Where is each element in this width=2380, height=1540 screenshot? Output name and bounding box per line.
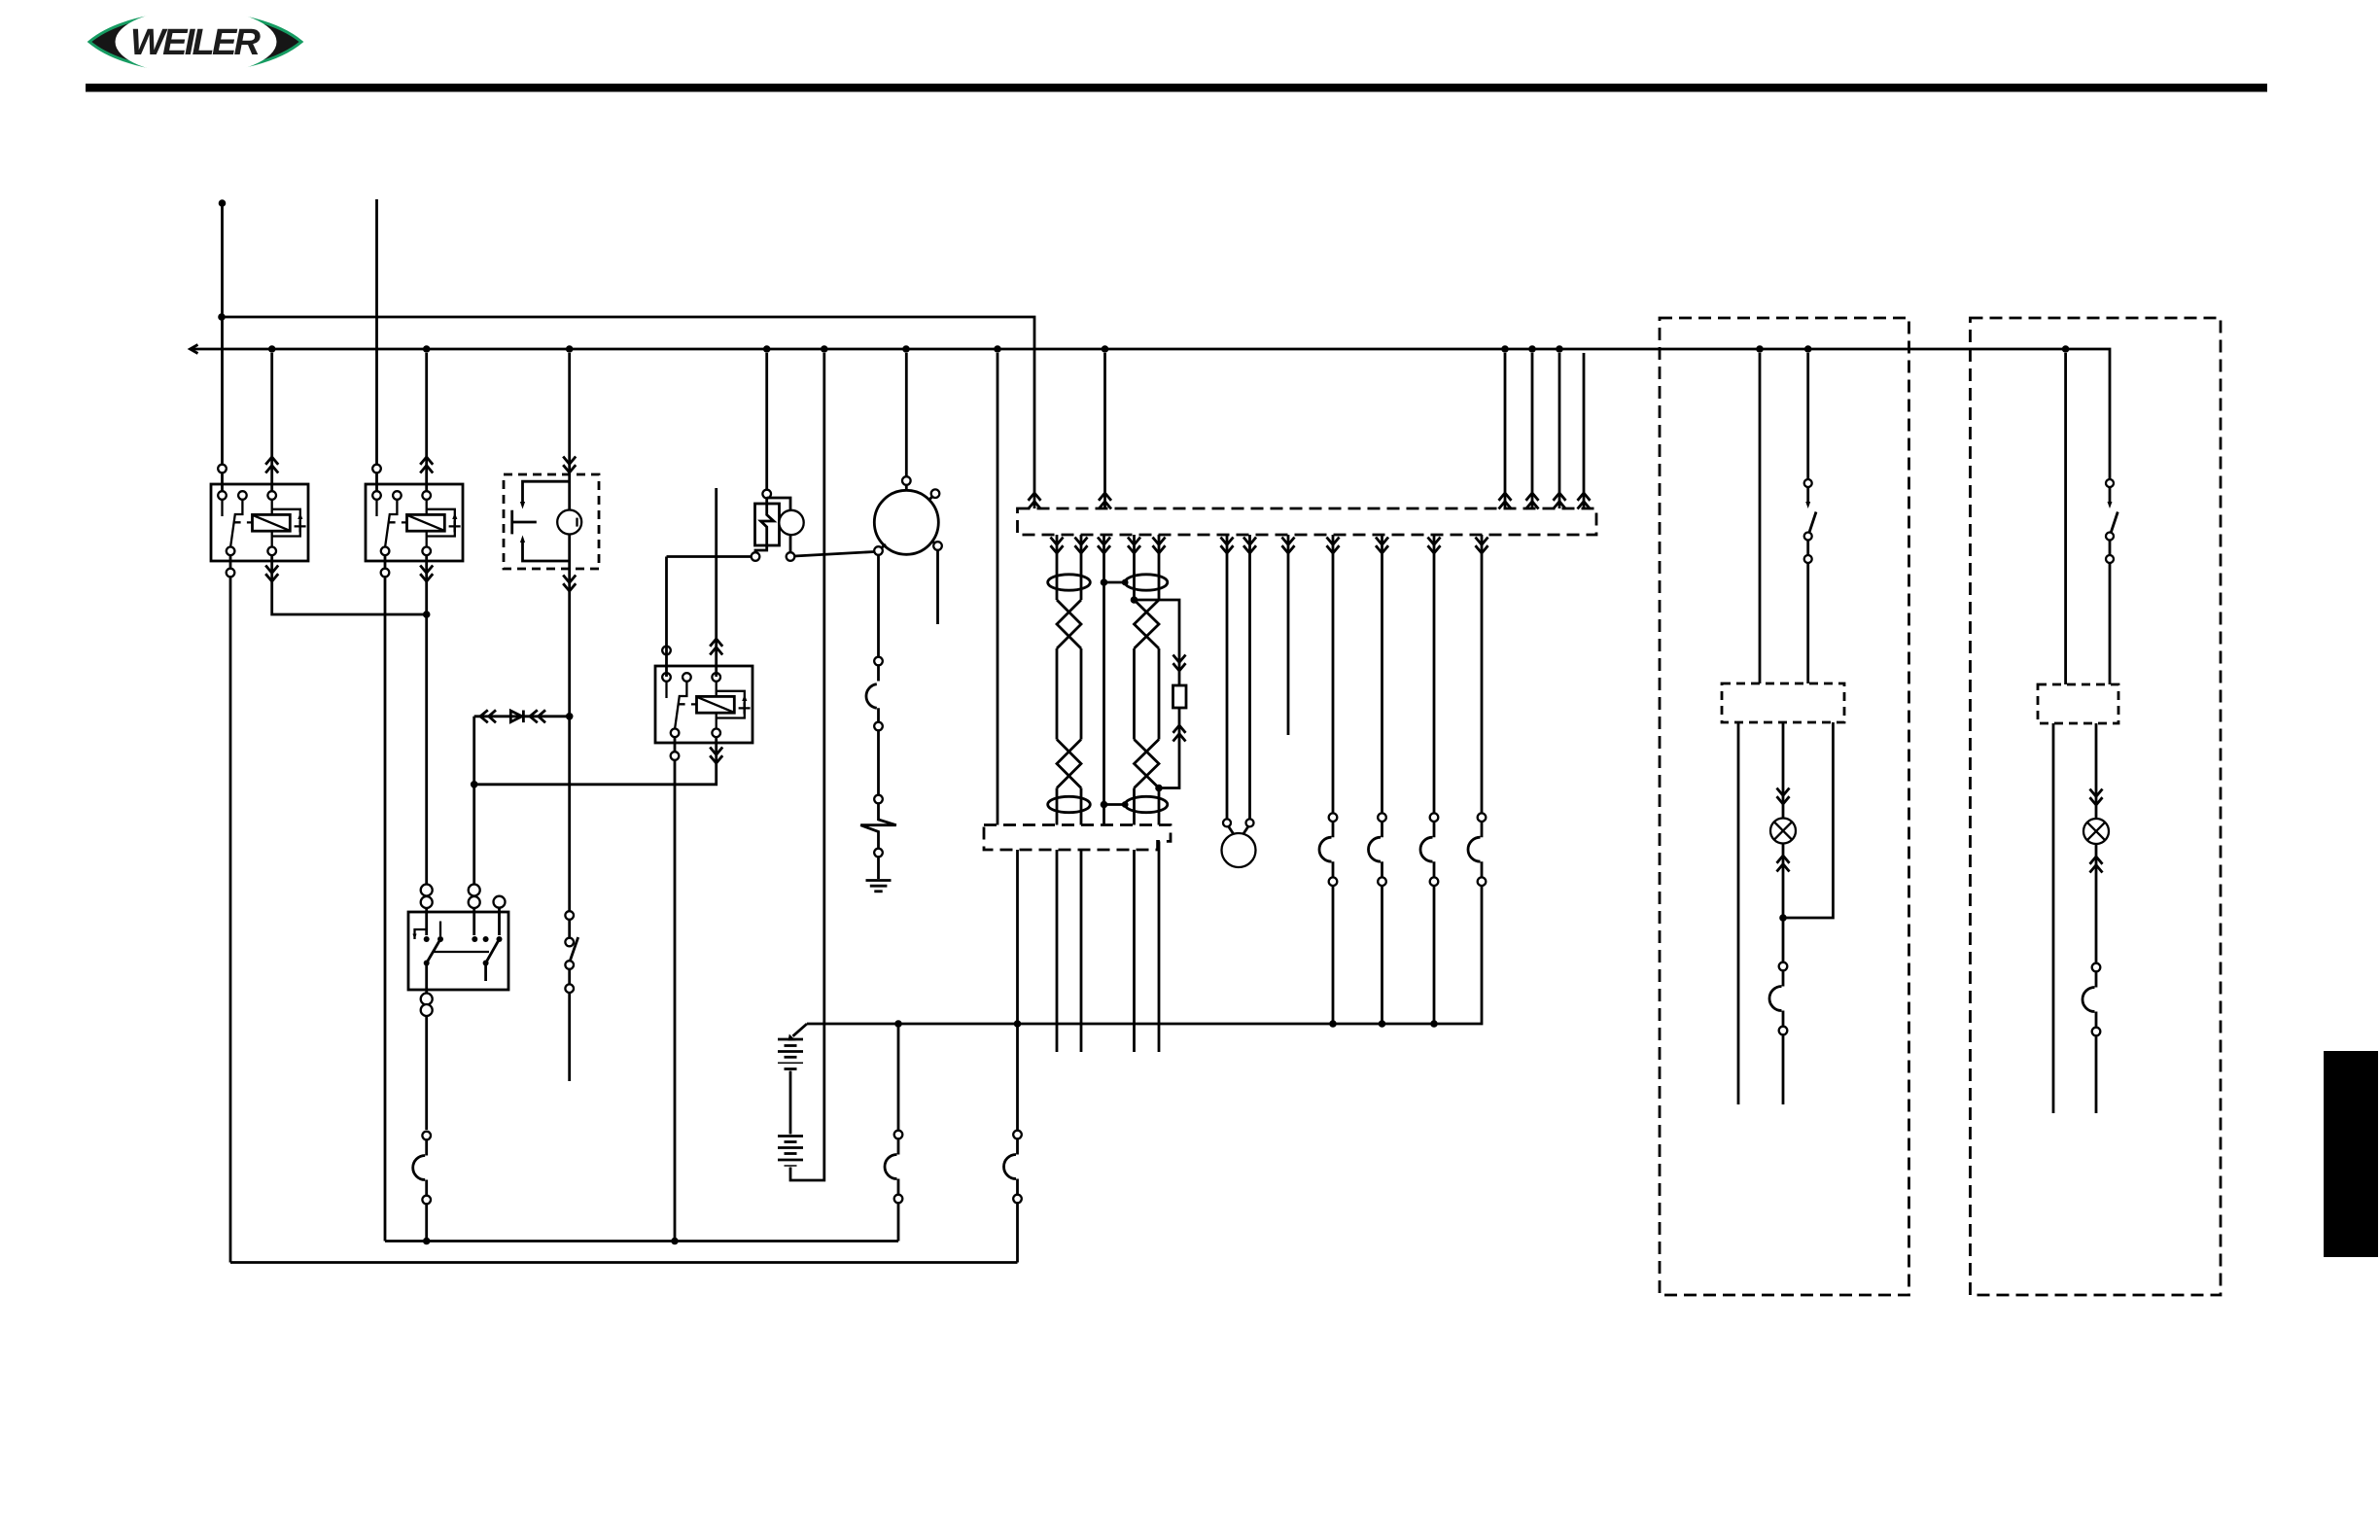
main switch top terminals bbox=[421, 885, 433, 896]
sensor chain 3 bbox=[1433, 535, 1436, 814]
node bus2/feed b bbox=[1528, 345, 1536, 353]
relay K3 bottom wires bbox=[674, 737, 677, 1242]
node bus2/feed c bbox=[1556, 345, 1563, 353]
node bus2/battery leg bbox=[821, 345, 828, 353]
node bus2/lower connector bbox=[994, 345, 1001, 353]
diode D1 bbox=[510, 711, 523, 723]
wire relay K2 coil from bus bbox=[425, 353, 428, 495]
fuse chain B bbox=[1016, 850, 1019, 1131]
node bus2/box1 switch bbox=[1804, 345, 1812, 353]
horn (big circle) bbox=[874, 490, 938, 554]
stub line bbox=[1287, 535, 1290, 735]
node bus2/relay1 coil bbox=[268, 345, 276, 353]
lower connector bbox=[984, 825, 1171, 851]
relay K1 bbox=[211, 484, 308, 561]
header rule bbox=[86, 84, 2267, 92]
node K1 coil to K2 coil line bbox=[423, 611, 431, 618]
node diode/horn line bbox=[566, 713, 574, 720]
box1 line a bbox=[1759, 353, 1762, 683]
main switch internals bbox=[427, 908, 500, 935]
diode wire bbox=[474, 715, 570, 717]
svg-text:WEILER: WEILER bbox=[130, 22, 262, 63]
page edge tab bbox=[2324, 1051, 2378, 1257]
battery bbox=[793, 1024, 808, 1036]
horn main line bbox=[568, 353, 571, 938]
horn push button bbox=[512, 510, 537, 535]
relay K2 bottom wires bbox=[384, 555, 387, 1242]
relay K3 feed left bbox=[665, 557, 668, 678]
node box1 lamp/right line bbox=[1779, 914, 1787, 922]
shield line bbox=[1102, 535, 1105, 825]
switch chain below horn bbox=[570, 937, 578, 962]
box2 line a bbox=[2064, 353, 2067, 684]
wire flasher to K3 bbox=[667, 555, 752, 558]
dashed box 2 bbox=[1971, 318, 2222, 1295]
bus 1 (upper feed) bbox=[222, 317, 1034, 508]
connector feed from bus2 bbox=[1103, 353, 1106, 508]
relay K1 bottom terminals bbox=[229, 555, 232, 1263]
connector feeds right bbox=[1504, 353, 1507, 508]
box2 left stub bbox=[2052, 723, 2055, 1113]
fuse chain A bbox=[897, 1024, 900, 1131]
sensor chain 1 bbox=[1332, 535, 1335, 814]
node pair2 branch bottom bbox=[1155, 785, 1163, 792]
bus2 left arrowhead bbox=[191, 345, 198, 354]
box1 switch bbox=[1806, 353, 1809, 479]
node bus2/connector feed bbox=[1102, 345, 1109, 353]
relay K3 coil feed stub bbox=[715, 488, 717, 677]
bus 2 (main feed) bbox=[191, 349, 2110, 479]
node wire/sensor 3 bbox=[1430, 1020, 1438, 1028]
resistor branch bbox=[1135, 600, 1180, 685]
bottom wire 1 bbox=[385, 1240, 898, 1242]
ground symbol bbox=[866, 879, 892, 882]
lamp L1 bbox=[1770, 819, 1796, 844]
ground chain bbox=[877, 555, 880, 682]
flasher unit bbox=[765, 353, 768, 498]
connector pair below main switch bbox=[413, 1132, 431, 1205]
relay K3 bbox=[655, 666, 752, 743]
node bus2/box1 line a bbox=[1756, 345, 1764, 353]
node bus1 start bbox=[218, 313, 226, 321]
resistor R1 bbox=[1173, 685, 1187, 708]
node wire/fuse chain A bbox=[894, 1020, 902, 1028]
dashed box 1 bbox=[1660, 318, 1909, 1295]
upper connector (ECU) bbox=[1018, 508, 1597, 535]
box2 inner connector bbox=[2038, 684, 2118, 723]
node bus2/feed a bbox=[1501, 345, 1509, 353]
horn bulb bbox=[557, 510, 581, 535]
node wire/sensor 1 bbox=[1329, 1020, 1337, 1028]
feed stub to relay K2 bbox=[375, 199, 378, 495]
twisted pair 1 bbox=[1057, 535, 1081, 600]
lower connector feed bbox=[997, 353, 999, 825]
diode branch vertical bbox=[472, 717, 475, 887]
main switch box bbox=[408, 912, 508, 990]
node pair2 branch top bbox=[1131, 596, 1138, 604]
box2 connector pair bbox=[2082, 963, 2100, 1036]
sensor chain 4 bbox=[1481, 535, 1484, 814]
horn hook top bbox=[523, 481, 570, 504]
node bus2/box2 line a bbox=[2062, 345, 2070, 353]
relay K2 bbox=[366, 484, 463, 561]
sensor chain 2 bbox=[1381, 535, 1383, 814]
wire relay K1 coil from bus bbox=[270, 353, 273, 495]
box1 left stub bbox=[1737, 722, 1740, 1104]
logo WEILER bbox=[89, 9, 301, 75]
box1 connector pair bbox=[1769, 962, 1787, 1035]
node bus2/flasher bbox=[763, 345, 771, 353]
box2 lamp line bbox=[2095, 723, 2098, 822]
node bus2/horn line bbox=[566, 345, 574, 353]
box2 switch bbox=[2106, 479, 2114, 487]
twisted pair 2 bbox=[1135, 535, 1160, 600]
wire flasher to horn junction bbox=[794, 552, 875, 557]
node wire/fuse chain B bbox=[1014, 1020, 1022, 1028]
main switch bottom line bbox=[425, 963, 428, 1131]
lamp L2 bbox=[2083, 819, 2109, 844]
node wire/sensor 2 bbox=[1379, 1020, 1386, 1028]
motor M bbox=[1227, 535, 1250, 819]
box1 lamp line bbox=[1782, 722, 1785, 821]
battery leg from bus bbox=[790, 353, 824, 1180]
bottom wire 2 bbox=[230, 1261, 1018, 1264]
node bus2/relay2 coil bbox=[423, 345, 431, 353]
horn hook bottom bbox=[523, 541, 570, 561]
lower connector stubs bbox=[1056, 850, 1059, 1052]
node bus2/gauge bbox=[902, 345, 910, 353]
feed stub to relay K1 bbox=[221, 203, 224, 495]
box1 inner connector bbox=[1722, 683, 1844, 722]
battery plus wire bbox=[807, 886, 1482, 1024]
chevron bus1 into connector bbox=[1029, 493, 1041, 509]
node diode branch / K3 wire bbox=[471, 781, 478, 788]
horn button box bbox=[504, 474, 599, 569]
